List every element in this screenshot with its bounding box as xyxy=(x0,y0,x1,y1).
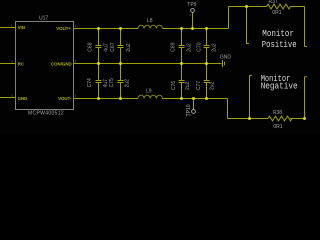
svg-text:VOUT-: VOUT- xyxy=(58,96,72,101)
svg-text:L9: L9 xyxy=(146,88,152,94)
svg-text:2u2: 2u2 xyxy=(212,43,218,52)
svg-text:R38: R38 xyxy=(273,110,282,116)
svg-text:C74: C74 xyxy=(87,78,93,87)
svg-text:4u7: 4u7 xyxy=(104,43,110,52)
svg-text:0R1: 0R1 xyxy=(273,124,282,130)
svg-text:Negative: Negative xyxy=(261,81,298,92)
svg-text:C69: C69 xyxy=(170,42,176,51)
svg-text:RC: RC xyxy=(18,61,25,66)
svg-text:Monitor: Monitor xyxy=(262,28,294,39)
svg-text:Positive: Positive xyxy=(262,39,297,50)
svg-text:C67: C67 xyxy=(110,42,116,51)
svg-text:GND: GND xyxy=(220,54,232,60)
svg-text:U17: U17 xyxy=(39,15,48,21)
svg-text:2u2: 2u2 xyxy=(185,81,191,90)
svg-text:C77: C77 xyxy=(196,81,202,90)
svg-text:2u2: 2u2 xyxy=(126,43,132,52)
svg-text:GND: GND xyxy=(18,96,28,101)
svg-text:TP9: TP9 xyxy=(187,2,196,8)
svg-text:VOUT+: VOUT+ xyxy=(56,26,71,31)
svg-text:L8: L8 xyxy=(147,18,153,24)
svg-text:MCPW400512: MCPW400512 xyxy=(28,111,64,117)
svg-text:C70: C70 xyxy=(197,42,203,51)
svg-text:C68: C68 xyxy=(88,42,94,51)
svg-text:C76: C76 xyxy=(171,81,177,90)
svg-text:2u2: 2u2 xyxy=(209,81,215,90)
svg-text:VIN: VIN xyxy=(18,25,25,30)
svg-text:2u2: 2u2 xyxy=(186,43,192,52)
svg-text:R37: R37 xyxy=(269,0,278,5)
svg-text:2u2: 2u2 xyxy=(125,79,131,88)
svg-text:C75: C75 xyxy=(109,78,115,87)
svg-text:CON/GND: CON/GND xyxy=(51,61,72,66)
svg-text:0R1: 0R1 xyxy=(272,10,281,16)
